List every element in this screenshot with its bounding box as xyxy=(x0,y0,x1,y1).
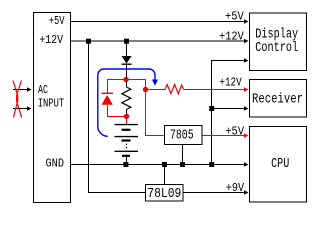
svg-text:INPUT: INPUT xyxy=(38,98,65,111)
svg-text:+5V: +5V xyxy=(225,11,244,24)
svg-text:+9V: +9V xyxy=(226,182,244,195)
svg-text:Receiver: Receiver xyxy=(252,93,303,108)
svg-text:+5V: +5V xyxy=(49,15,65,28)
svg-text:+12V: +12V xyxy=(219,76,241,89)
svg-text:+12V: +12V xyxy=(219,31,244,44)
svg-text:CPU: CPU xyxy=(271,157,289,172)
svg-text:78L09: 78L09 xyxy=(147,187,181,202)
svg-text:GND: GND xyxy=(46,157,65,170)
svg-text:7805: 7805 xyxy=(170,129,194,144)
svg-text:+12V: +12V xyxy=(39,34,63,47)
svg-text:AC: AC xyxy=(38,84,48,97)
svg-text:+5V: +5V xyxy=(225,125,244,138)
svg-text:Control: Control xyxy=(255,41,298,56)
